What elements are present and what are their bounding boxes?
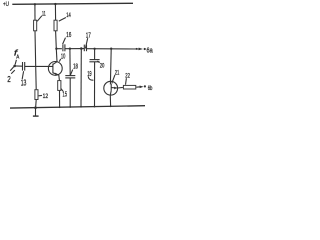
wire arrow to 6a bbox=[139, 48, 143, 51]
node junction collector / coupling wire bbox=[55, 48, 57, 50]
node junction rail / Q21 bbox=[110, 105, 112, 107]
wire leader 18 bbox=[70, 70, 72, 76]
capacitor C18 bbox=[65, 75, 75, 77]
wire C18 tap down bbox=[69, 49, 71, 76]
label 11 bbox=[42, 10, 46, 17]
label 19 bbox=[87, 69, 91, 78]
svg-text:2: 2 bbox=[7, 75, 11, 84]
wire Q21 emitter to R22 bbox=[118, 86, 123, 89]
wire Q21 bottom to rail bbox=[109, 95, 111, 106]
node input terminal 2 bbox=[13, 65, 16, 68]
wire Q21 top lead bbox=[109, 49, 112, 85]
wire leader 17 bbox=[85, 38, 87, 48]
node junction top rail / R11 bbox=[34, 3, 36, 5]
wire leader 20 bbox=[97, 61, 99, 63]
wire R15 bottom to ground rail bbox=[59, 91, 61, 108]
label 21 bbox=[115, 70, 120, 77]
label 13 bbox=[21, 79, 27, 88]
resistor R15 bbox=[58, 81, 61, 91]
transistor Q21 bbox=[104, 81, 118, 95]
label 6a bbox=[147, 45, 154, 54]
node junction shunt wire 19 bbox=[80, 47, 83, 50]
ground bbox=[35, 108, 37, 116]
wire leader 15 bbox=[61, 88, 63, 91]
svg-text:14: 14 bbox=[66, 12, 71, 19]
wire leader 11 bbox=[37, 16, 42, 22]
wire leader fA bbox=[15, 60, 16, 65]
capacitor C16 bbox=[62, 44, 64, 51]
node junction rail / R12 bbox=[34, 106, 37, 109]
svg-text:13: 13 bbox=[21, 79, 27, 88]
label 14 bbox=[66, 12, 71, 19]
svg-text:18: 18 bbox=[73, 64, 78, 71]
wire collector lead bbox=[55, 49, 58, 62]
svg-text:12: 12 bbox=[43, 93, 49, 100]
label 16 bbox=[66, 30, 71, 39]
node junction Q21 tap bbox=[110, 48, 112, 50]
wire leader 22 bbox=[125, 78, 128, 85]
svg-text:6a: 6a bbox=[147, 45, 154, 54]
svg-text:17: 17 bbox=[86, 30, 91, 39]
label 6b bbox=[148, 85, 153, 92]
label 22 bbox=[125, 73, 130, 80]
resistor R12 bbox=[35, 90, 38, 100]
resistor R11 bbox=[34, 20, 37, 31]
node junction C18 tap bbox=[69, 48, 71, 50]
node junction C20 tap bbox=[93, 48, 95, 50]
wire leader 12 bbox=[39, 94, 42, 96]
resistor R22 bbox=[123, 85, 135, 89]
wire base junction down to R12 bbox=[35, 66, 38, 89]
wire leader 19 curved bbox=[88, 76, 93, 80]
svg-text:6b: 6b bbox=[148, 85, 153, 92]
wire shunt 19 down to rail bbox=[80, 49, 82, 108]
wire C20 tap down bbox=[94, 49, 96, 60]
wire R11 bottom to base junction bbox=[34, 31, 37, 66]
capacitor C13 bbox=[22, 62, 24, 71]
wire R22 to arrow 6b bbox=[136, 86, 140, 88]
node terminal 6a bbox=[144, 48, 146, 50]
wire bottom ground rail bbox=[10, 106, 145, 108]
node junction rail / R15 bbox=[59, 106, 61, 108]
svg-text:A: A bbox=[16, 54, 19, 60]
wire leader 13 bbox=[22, 71, 23, 79]
wire coupling line to output 6a bbox=[56, 48, 62, 50]
svg-text:16: 16 bbox=[66, 30, 71, 39]
wire input slash bbox=[11, 70, 15, 74]
label 18 bbox=[73, 64, 78, 71]
node junction rail / C18 bbox=[69, 106, 71, 108]
resistor R14 bbox=[54, 20, 57, 31]
node junction rail / wire 19 bbox=[80, 106, 82, 108]
wire input stub bbox=[10, 66, 14, 71]
label 10 bbox=[61, 54, 65, 61]
label 20 bbox=[100, 62, 105, 69]
wire arrow to 6b bbox=[140, 86, 144, 89]
label 12 bbox=[43, 93, 49, 100]
svg-text:+U: +U bbox=[3, 1, 9, 8]
label 15 bbox=[63, 90, 68, 99]
capacitor C20 bbox=[90, 59, 100, 61]
label 17 bbox=[86, 30, 91, 39]
wire C18 bottom to rail bbox=[69, 78, 71, 107]
node terminal 6b bbox=[144, 85, 146, 87]
wire C16 to C17 bbox=[65, 48, 84, 50]
svg-text:20: 20 bbox=[100, 62, 105, 69]
wire leader 10 bbox=[59, 59, 60, 62]
wire C13 to base of Q10 bbox=[25, 65, 53, 67]
wire R14 top lead bbox=[54, 4, 56, 20]
wire leader 14 bbox=[59, 18, 66, 22]
wire C20 bottom to rail bbox=[94, 62, 96, 107]
wire input to C13 bbox=[15, 65, 23, 67]
label fA input bbox=[14, 48, 20, 60]
wire R12 bottom to ground rail bbox=[35, 100, 38, 108]
transistor Q10 bbox=[48, 62, 62, 76]
wire emitter to R15 bbox=[58, 75, 61, 80]
svg-text:10: 10 bbox=[61, 54, 65, 61]
wire leader 16 bbox=[63, 38, 66, 45]
svg-text:21: 21 bbox=[115, 70, 120, 77]
node junction rail / C20 bbox=[94, 106, 96, 108]
node junction top rail / R14 bbox=[54, 3, 56, 5]
wire R11 top lead bbox=[34, 4, 36, 20]
capacitor C17 bbox=[83, 45, 85, 52]
wire leader 21 bbox=[112, 75, 115, 84]
node dot before arrow 6a bbox=[136, 48, 138, 50]
wire R14 bottom to collector junction bbox=[55, 31, 58, 49]
node +U label bbox=[3, 1, 9, 8]
wire C17 to terminal 6a bbox=[87, 48, 140, 50]
wire top supply rail bbox=[12, 3, 133, 4]
svg-text:11: 11 bbox=[42, 10, 46, 17]
label 2 bbox=[7, 75, 11, 84]
